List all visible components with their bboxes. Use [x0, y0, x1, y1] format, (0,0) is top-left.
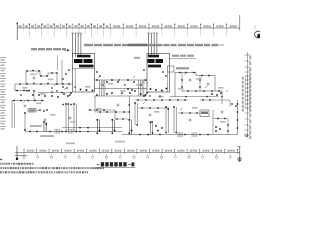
middle wiring y110 [88, 109, 115, 111]
right stair core outline [147, 54, 170, 93]
right unit v x222 [221, 91, 223, 104]
below-right-core cluster [140, 93, 142, 95]
left unit bottom wall [25, 131, 95, 133]
top right detail circle [255, 31, 262, 38]
left unit top wall b [40, 75, 48, 77]
right wing bottom wall [131, 134, 232, 136]
left unit vline x25 [24, 113, 26, 131]
left unit wiring y92 [38, 92, 72, 94]
label strip end dash [220, 44, 225, 46]
right unit cluster y94 [211, 93, 213, 95]
right unit wall y91 [182, 90, 222, 92]
right unit v x213 [212, 110, 214, 135]
middle window pair x150 [149, 122, 151, 135]
right wing column pair x166 [165, 107, 167, 133]
entrance door swing left [99, 82, 106, 89]
right core bottom devices [150, 88, 152, 90]
scattered device labels [30, 74, 36, 76]
right dimension bottom bubble [245, 134, 248, 137]
notes line 1 [0, 163, 2, 165]
entrance floor wall [95, 95, 148, 97]
core flanking dots [65, 73, 66, 74]
right unit v x200 [199, 76, 201, 92]
left legend table rows [0, 57, 6, 59]
label strip left with arrow [31, 48, 37, 50]
middle window pair dark x129 [128, 96, 130, 135]
right unit left wall x175 [174, 72, 176, 97]
left unit wiring v x34 [33, 91, 35, 101]
drawing title glyphs [101, 162, 104, 166]
right wing column pair x135 [134, 103, 136, 125]
right unit cluster low [215, 126, 217, 128]
left unit left wall x15 [14, 84, 16, 91]
meter box side text [176, 67, 189, 69]
middle bottom step wall [122, 134, 131, 136]
entrance lower wall [95, 88, 148, 90]
left unit window hatch x55 [54, 129, 56, 134]
bottom grid bubbles [23, 154, 25, 156]
left unit faint label y126 [30, 125, 42, 127]
right unit v x215 [214, 76, 216, 92]
right core stair hatch rows [148, 55, 159, 58]
left unit left upper wall [25, 71, 27, 84]
left unit wall y100 [12, 100, 44, 102]
right dimension bottom dot [247, 135, 248, 136]
left unit left wall x12 pair [11, 101, 13, 129]
right unit wall y100 [200, 99, 230, 101]
left unit label y111 leader [36, 110, 40, 112]
middle bottom wall lower [95, 131, 122, 133]
bottom dimension text smudges [27, 150, 29, 152]
stray label below plan mid [115, 141, 125, 143]
long label strip center-right [136, 44, 144, 46]
right unit step v x196 [195, 73, 197, 76]
left unit mid wall y84 [15, 83, 73, 85]
right unit outer wall x237 [237, 100, 239, 135]
top dimension text smudges [19, 25, 22, 27]
small label left of right core [134, 57, 140, 59]
extra interior dots [20, 94, 21, 95]
middle column pair x74 [73, 104, 75, 132]
right unit wall y96 [170, 96, 219, 98]
entrance vline x95 [94, 96, 96, 112]
notes line 2 [0, 167, 2, 169]
left unit dots row y95 [32, 94, 34, 96]
label leader vline [57, 55, 59, 70]
left unit partition x57 [56, 73, 58, 84]
bottom right end tick [237, 146, 241, 148]
right unit v x182 [181, 73, 183, 93]
top dimension line [17, 27, 240, 29]
right wing wiring y108 [138, 107, 168, 109]
right wing column pair x174 [173, 107, 175, 133]
left unit window pair dark x44 [43, 122, 45, 132]
riser top ticks right [147, 32, 159, 34]
right wing cluster mid [155, 125, 157, 127]
bottom right end bubble [238, 158, 241, 161]
right dimension ticks [245, 54, 251, 56]
notes marker [0, 159, 2, 161]
left unit faint label y136 [40, 135, 54, 137]
right unit wall y75 [196, 75, 215, 77]
right wing wiring y100 [135, 99, 188, 101]
left core stair hatch rows [77, 55, 91, 58]
right core leader label [170, 58, 196, 60]
middle column pair x66 [65, 104, 67, 132]
right core inner wall [167, 72, 169, 92]
bottom dimension ticks [23, 150, 25, 154]
long label strip center-left [84, 44, 93, 46]
right riser bundle conduits [148, 33, 150, 55]
bottom dimension right end bar [239, 146, 241, 162]
small tick above circle [254, 25, 256, 29]
right wing window hatch xb [191, 132, 193, 137]
ground symbol [16, 146, 18, 160]
right unit v x228 [227, 119, 229, 135]
title trailing dash [129, 163, 131, 166]
middle bottom wall upper [62, 127, 122, 129]
top dimension right end bar [239, 15, 241, 31]
right unit wiring y118 [213, 118, 228, 120]
top dimension left end bar [16, 22, 18, 40]
left core inner wall [74, 68, 76, 92]
left unit AL1 box [28, 109, 36, 113]
below-left-core cluster [63, 93, 65, 95]
left unit core-side verticals [61, 60, 63, 84]
entrance steps vB [138, 80, 140, 96]
left unit window hatch x68 [68, 129, 70, 134]
drawing title dash lead [97, 163, 99, 166]
right unit wall y72 [175, 72, 196, 74]
entrance steps vA [99, 80, 101, 96]
entrance door swing right [139, 82, 146, 89]
right dimension second line [244, 76, 246, 108]
right dimension column line [247, 52, 249, 137]
right unit bottom corner [232, 134, 238, 136]
label strip dark segment [128, 44, 147, 46]
middle window pair dark x112 [111, 120, 113, 132]
entrance devices [96, 79, 98, 81]
entrance top wall [95, 79, 148, 81]
riser top ticks left [71, 32, 83, 34]
left riser bundle conduits [72, 33, 74, 57]
top dimension minor ticks left half [22, 25, 24, 29]
left unit top wall a [26, 70, 40, 72]
right unit AL box [200, 110, 209, 117]
right unit v x230 [229, 100, 231, 107]
switch symbol diagonals [36, 72, 38, 74]
left stair core outline [73, 54, 95, 93]
middle wiring y119 [115, 118, 128, 120]
label strip continuous baseline [84, 45, 216, 47]
left unit wall y90 [15, 90, 30, 92]
middle window pair dark x97 [96, 120, 98, 132]
notes line 3 [0, 171, 2, 173]
left core bottom devices [80, 89, 82, 91]
stray label below plan left [66, 143, 75, 145]
entrance wiring y112 [95, 111, 130, 113]
middle dots y104 [62, 104, 63, 105]
right core meter box [168, 66, 175, 72]
title tail glyph [132, 162, 135, 166]
right unit wiring y113 [178, 112, 200, 114]
top dimension major ticks right half [109, 24, 111, 29]
right wing window hatch xa [177, 132, 179, 137]
bottom dimension line [15, 152, 240, 154]
title underline [97, 166, 136, 168]
lamp symbols [33, 77, 35, 79]
top dimension extension lines [22, 29, 24, 33]
left unit top wall c [48, 72, 57, 74]
